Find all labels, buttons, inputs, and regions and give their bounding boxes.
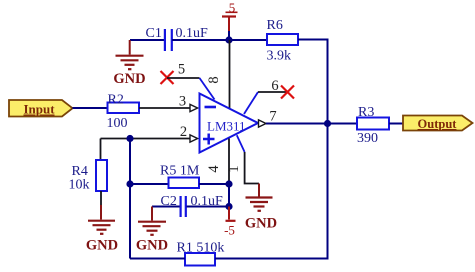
svg-text:5: 5 bbox=[229, 0, 236, 15]
wire junction to junction bbox=[228, 184, 230, 207]
node junction at top rail bbox=[225, 36, 232, 43]
power -5 port bbox=[224, 207, 235, 238]
node pin4 junction bbox=[225, 180, 232, 187]
pin 4 line down from op-amp bbox=[206, 139, 229, 185]
svg-text:4: 4 bbox=[206, 165, 222, 173]
svg-text:Input: Input bbox=[23, 102, 55, 117]
svg-text:390: 390 bbox=[357, 131, 378, 146]
svg-text:GND: GND bbox=[245, 216, 277, 232]
capacitor C2 bbox=[161, 194, 224, 217]
port Output bbox=[403, 116, 473, 132]
svg-text:R5 1M: R5 1M bbox=[160, 164, 200, 179]
svg-text:2: 2 bbox=[180, 124, 187, 140]
wire bottom feedback loop bbox=[130, 124, 328, 259]
resistor R3 bbox=[357, 105, 389, 146]
ground GND3 at pin 1 bbox=[245, 184, 277, 232]
svg-text:GND: GND bbox=[113, 71, 145, 87]
svg-text:R1 510k: R1 510k bbox=[177, 241, 225, 256]
svg-text:Output: Output bbox=[418, 117, 458, 131]
node C2 junction bbox=[225, 203, 232, 210]
wire / pin 3 line to op-amp bbox=[139, 94, 190, 110]
wire C2 right bbox=[187, 206, 230, 208]
wire C1 right plate to +5 junction bbox=[172, 39, 229, 41]
wire junction to R6 bbox=[229, 39, 267, 41]
node R5 left junction bbox=[126, 180, 133, 187]
svg-text:GND: GND bbox=[136, 237, 168, 253]
resistor R5 bbox=[160, 164, 200, 189]
wire R4 bottom stem bbox=[100, 191, 102, 206]
svg-text:LM311: LM311 bbox=[207, 119, 246, 134]
wire R6 right, corner down to output node bbox=[298, 40, 328, 124]
svg-text:3: 3 bbox=[179, 94, 186, 110]
svg-text:GND: GND bbox=[86, 238, 118, 254]
wire R5 left bbox=[130, 183, 169, 185]
svg-text:8: 8 bbox=[206, 76, 222, 83]
wire pin 1 to GND bbox=[226, 135, 259, 183]
wire output to R3 bbox=[266, 123, 357, 125]
svg-text:10k: 10k bbox=[69, 178, 90, 193]
wire C2 left to GND corner bbox=[152, 206, 180, 208]
svg-text:6: 6 bbox=[271, 78, 278, 94]
resistor R1 bbox=[177, 241, 225, 266]
wire C1 left plate to GND corner bbox=[130, 39, 164, 41]
svg-text:C1: C1 bbox=[146, 26, 162, 41]
wire R5 right bbox=[199, 183, 229, 185]
svg-text:R3: R3 bbox=[358, 105, 374, 120]
svg-text:100: 100 bbox=[107, 116, 128, 131]
wire +5 junction down stub bbox=[228, 31, 230, 40]
capacitor C1 bbox=[146, 26, 209, 51]
svg-text:5: 5 bbox=[178, 62, 185, 78]
port Input bbox=[9, 100, 73, 117]
pin 2 arrow bbox=[190, 135, 198, 142]
pin 7 arrow at output bbox=[259, 109, 277, 128]
svg-text:1: 1 bbox=[226, 165, 242, 172]
wire pin 5 bbox=[167, 62, 215, 100]
pin 8 line into op-amp bbox=[206, 40, 230, 109]
svg-text:0.1uF: 0.1uF bbox=[176, 26, 209, 41]
svg-text:-5: -5 bbox=[224, 223, 235, 238]
svg-text:R6: R6 bbox=[267, 18, 283, 33]
svg-text:7: 7 bbox=[269, 109, 276, 125]
resistor R2 bbox=[107, 93, 140, 132]
svg-text:R2: R2 bbox=[108, 93, 124, 108]
resistor R4 bbox=[69, 160, 108, 193]
power +5 port bbox=[222, 0, 238, 33]
wire R4 top stem bbox=[100, 139, 102, 161]
wire pin2 node down left rail bbox=[129, 139, 131, 259]
pin 3 arrow bbox=[190, 104, 198, 111]
svg-text:3.9k: 3.9k bbox=[267, 49, 292, 64]
wire pin 2 from R4 corner bbox=[101, 124, 191, 140]
ground GND2 under C2 left bbox=[136, 207, 168, 254]
ground GND1 under C1 bbox=[113, 40, 145, 87]
wire R3 to Output port bbox=[389, 123, 403, 125]
wire pin 6 with no-ERC cross bbox=[244, 78, 288, 114]
node pin2 junction bbox=[126, 135, 133, 142]
no-ERC cross on pin 6 bbox=[281, 86, 294, 99]
svg-text:C2: C2 bbox=[161, 194, 177, 209]
node output junction bbox=[324, 120, 331, 127]
no-ERC cross on pin 5 bbox=[161, 71, 174, 84]
wire Input to R2 bbox=[73, 107, 108, 109]
op-amp U1 LM311 triangle bbox=[200, 94, 259, 153]
ground GND4 under R4 bbox=[86, 205, 118, 254]
resistor R6 bbox=[267, 18, 299, 64]
